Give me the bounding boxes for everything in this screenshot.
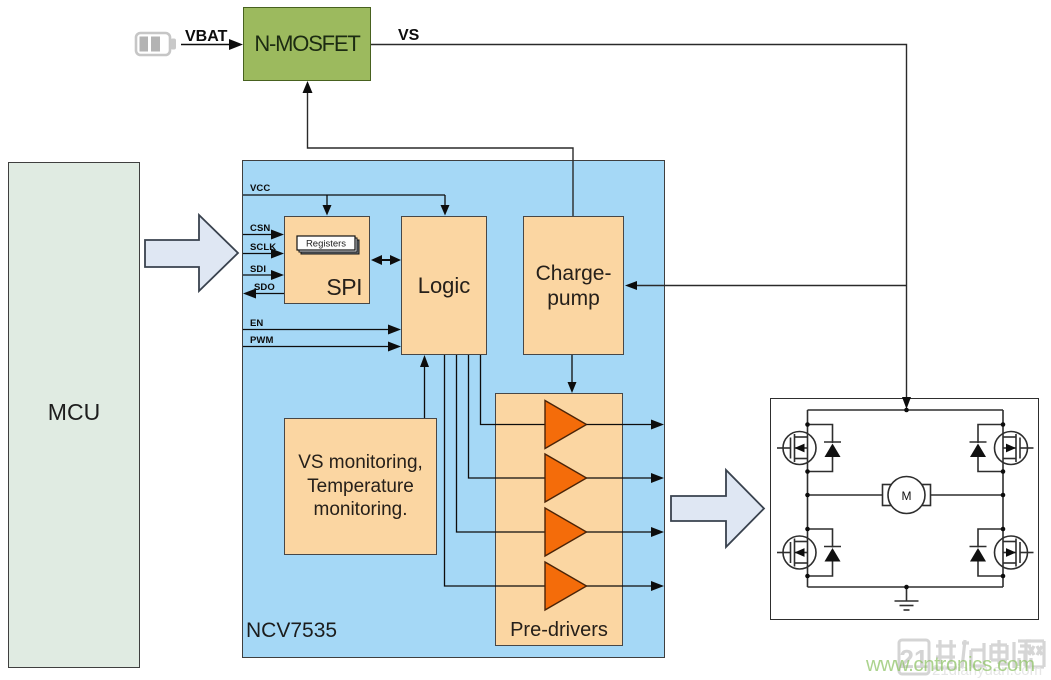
wire Logic to pre-driver 2 <box>469 355 546 478</box>
block Pre-drivers <box>495 393 623 646</box>
ground <box>895 587 919 610</box>
watermark glyph dian <box>991 640 1009 664</box>
transistor Q3 low-side left <box>777 536 816 569</box>
diode D4 body <box>970 529 1004 576</box>
transistor Q1 high-side left <box>777 432 816 465</box>
wire SPI-Logic bidirectional bus <box>371 255 401 265</box>
pre-driver buffer 1 <box>545 401 664 449</box>
wire Charge-pump to N-MOSFET gate <box>303 81 574 216</box>
wire PWM <box>243 342 401 352</box>
block H-bridge enclosure <box>770 398 1039 620</box>
label VS <box>398 27 419 45</box>
label PWM <box>250 335 274 346</box>
wire H-bridge right rail <box>1002 410 1004 587</box>
wire H-bridge bottom rail <box>808 586 1004 588</box>
watermark glyph yuan <box>1014 641 1033 668</box>
label EN <box>250 318 263 329</box>
watermark glyph shi <box>933 640 957 668</box>
wire VBAT battery to N-MOSFET <box>181 39 243 50</box>
node junction dots <box>805 408 1005 590</box>
wire SDO <box>243 289 284 299</box>
wire VS branch to Charge-pump <box>625 281 907 290</box>
svg-text:M: M <box>902 489 912 503</box>
watermark glyph wang <box>1026 641 1044 667</box>
transistor Q2 high-side right <box>995 432 1034 465</box>
wire VS-monitor to Logic <box>420 355 429 418</box>
wire EN <box>243 325 401 335</box>
label VCC <box>250 183 270 194</box>
block Logic <box>401 216 487 355</box>
wire H-bridge left rail <box>807 410 809 587</box>
block Charge-pump <box>523 216 624 355</box>
diode D2 body <box>970 425 1004 472</box>
wire Logic to pre-driver 1 <box>481 355 546 425</box>
label NCV7535 <box>246 619 337 643</box>
pre-driver buffer 3 <box>545 508 664 556</box>
diode D1 body <box>808 425 842 472</box>
battery B1 <box>136 33 176 55</box>
wire H-bridge top rail <box>808 409 1004 411</box>
wire Logic to pre-driver 4 <box>445 355 546 586</box>
motor M1 <box>883 477 931 514</box>
label CSN <box>250 223 270 234</box>
wire Logic to pre-driver 3 <box>457 355 546 532</box>
label VBAT <box>185 28 227 46</box>
block SPI <box>284 216 370 304</box>
diode D3 body <box>808 529 842 576</box>
watermark glyph ji <box>962 640 986 668</box>
wire SDI <box>243 270 284 280</box>
svg-text:www.cntronics.com: www.cntronics.com <box>865 653 1035 676</box>
wire VCC <box>243 195 450 216</box>
block MCU <box>8 162 140 668</box>
wire VS net: N-MOSFET to H-bridge top <box>371 45 911 410</box>
wire motor rail left <box>808 494 884 496</box>
block VS/Temperature monitoring <box>284 418 437 555</box>
label SDO <box>254 282 275 293</box>
block arrow MCU to NCV7535 <box>145 215 238 291</box>
block arrow NCV7535 to H-bridge <box>671 470 764 547</box>
block N-MOSFET <box>243 7 371 81</box>
wire motor rail right <box>930 494 1003 496</box>
label SCLK <box>250 242 276 253</box>
block NCV7535 (main IC body) <box>242 160 665 658</box>
svg-text:Registers: Registers <box>306 239 346 250</box>
transistor Q4 low-side right <box>995 536 1034 569</box>
wire CSN <box>243 230 284 240</box>
registers widget in SPI <box>297 236 359 254</box>
wire SCLK <box>243 249 284 259</box>
label SDI <box>250 264 266 275</box>
pre-driver buffer 4 <box>545 562 664 610</box>
watermark logo 21 <box>899 640 929 674</box>
wire Charge-pump to Pre-drivers <box>568 355 577 393</box>
pre-driver buffer 2 <box>545 454 664 502</box>
